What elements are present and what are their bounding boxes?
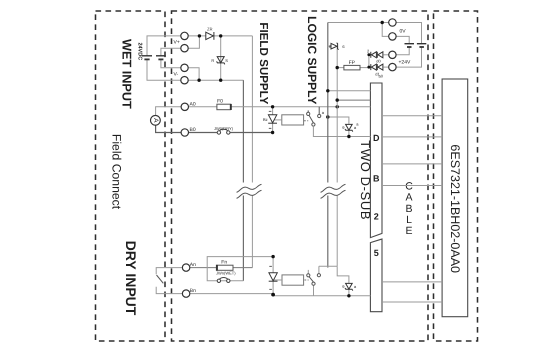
svg-text:FIELD SUPPLY: FIELD SUPPLY <box>257 22 270 104</box>
svg-text:JW0(DRY): JW0(DRY) <box>214 126 234 131</box>
svg-text:V-: V- <box>174 72 179 78</box>
svg-text:a0: a0 <box>379 74 384 79</box>
svg-text:C: C <box>405 180 413 192</box>
svg-text:E: E <box>405 225 412 237</box>
svg-text:B0: B0 <box>190 127 196 133</box>
svg-text:5: 5 <box>374 248 379 258</box>
svg-text:6ES7321-1BH02-0AA0: 6ES7321-1BH02-0AA0 <box>448 144 462 273</box>
svg-text:F0: F0 <box>217 99 223 105</box>
svg-text:LOGIC SUPPLY: LOGIC SUPPLY <box>305 16 319 104</box>
svg-text:24VDC: 24VDC <box>136 42 142 60</box>
svg-text:L: L <box>406 214 412 226</box>
svg-text:S: S <box>225 58 228 63</box>
svg-text:Fn: Fn <box>221 259 227 265</box>
svg-text:B: B <box>405 203 412 215</box>
svg-text:Bn: Bn <box>190 288 196 294</box>
svg-text:An: An <box>190 262 196 268</box>
svg-text:+24V: +24V <box>399 60 411 66</box>
svg-text:A: A <box>152 118 159 123</box>
svg-text:WET INPUT: WET INPUT <box>120 39 134 109</box>
svg-text:B: B <box>373 174 380 184</box>
svg-text:R: R <box>211 58 214 63</box>
svg-text:d0: d0 <box>376 58 381 63</box>
svg-text:A: A <box>405 192 412 204</box>
svg-text:A0: A0 <box>190 101 196 107</box>
svg-text:D: D <box>373 133 380 143</box>
svg-text:FP: FP <box>349 60 356 66</box>
svg-text:2: 2 <box>374 212 379 222</box>
svg-text:ZR: ZR <box>207 27 212 32</box>
svg-text:DRY INPUT: DRY INPUT <box>123 241 139 316</box>
svg-text:Bz: Bz <box>263 117 268 122</box>
svg-text:V+: V+ <box>174 40 180 46</box>
svg-text:0V: 0V <box>400 29 407 35</box>
svg-text:JWn(WET): JWn(WET) <box>216 271 236 276</box>
svg-text:Field Connect: Field Connect <box>110 134 124 210</box>
